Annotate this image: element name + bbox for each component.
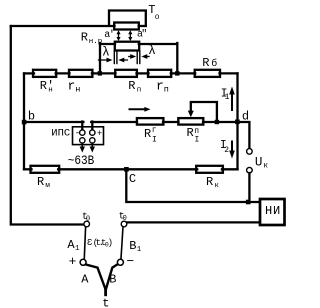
svg-text:к: к — [214, 182, 219, 190]
svg-text:I: I — [195, 135, 200, 144]
thermocouple electrode B — [106, 265, 117, 290]
wire: left assembly rail down to resistor row — [99, 43, 101, 73]
wire: left bridge rail — [23, 73, 25, 169]
resistor Rб — [195, 70, 220, 77]
wire: outer loop left side and bottom — [11, 26, 84, 225]
svg-text:0: 0 — [123, 215, 127, 223]
svg-text:I: I — [152, 135, 157, 144]
svg-text:п: п — [164, 85, 169, 95]
svg-text:r: r — [68, 78, 76, 93]
wire: Rн.р right end to loop right vertical — [139, 25, 146, 27]
contact reference lines below slidewire right end — [136, 51, 138, 64]
thermocouple electrode A — [86, 265, 117, 290]
wire: right assembly rail down to resistor row — [176, 43, 178, 73]
wire: main top conductor from outer loop corner to Rн.р — [11, 25, 115, 27]
svg-text:н: н — [75, 85, 80, 95]
svg-text:+: + — [97, 129, 102, 139]
IPS terminal circles — [80, 130, 95, 143]
current arrow I1 (up) — [231, 93, 233, 110]
svg-text:R: R — [128, 79, 135, 93]
terminal circle thermocouple plus — [80, 259, 123, 265]
svg-text:н.р: н.р — [89, 38, 103, 46]
resistor Rк — [196, 166, 223, 173]
middle row wire: R_I^г to R_I^п — [163, 121, 179, 123]
terminal circle t0 right — [121, 221, 127, 227]
wire: right bridge rail — [236, 73, 238, 169]
svg-text:d: d — [242, 109, 249, 123]
middle row wire: R_I^п to node d — [203, 121, 238, 123]
dimension arrows between contacts — [118, 58, 124, 63]
IPS output arrows down — [82, 143, 92, 148]
resistor row wire segments — [24, 72, 34, 74]
node: junction of Uк branch with c–NI wire — [246, 200, 251, 205]
svg-text:C: C — [129, 172, 136, 186]
wire: compensation lead B1 — [121, 227, 123, 259]
svg-text:r: r — [156, 78, 164, 93]
node b — [22, 120, 27, 125]
node d — [235, 120, 240, 125]
svg-text:ИПС: ИПС — [51, 128, 70, 140]
svg-text:t: t — [102, 296, 109, 308]
svg-text:1: 1 — [75, 245, 80, 253]
slidewire resistor Rp (rheochord) — [115, 42, 139, 51]
svg-text:R: R — [202, 56, 209, 70]
contact reference lines below slidewire left end — [114, 51, 140, 64]
current arrow I2 (down) — [231, 142, 233, 153]
svg-text:а′: а′ — [104, 29, 115, 41]
svg-text:н: н — [48, 86, 53, 94]
svg-text:Ɛ(t.t: Ɛ(t.t — [87, 238, 106, 248]
svg-text:~63В: ~63В — [68, 153, 94, 168]
svg-text:): ) — [108, 238, 113, 248]
resistor R'н — [33, 70, 56, 77]
dimension arrow lambda left — [99, 59, 109, 61]
current direction arrow above R_I^г — [130, 108, 145, 110]
terminal circle Uк upper — [247, 149, 253, 173]
svg-text:B: B — [109, 272, 116, 286]
dimension arrow lambda right — [141, 54, 147, 59]
svg-text:R: R — [144, 127, 151, 141]
resistor rп — [148, 70, 171, 77]
bottom row wire segments — [24, 168, 32, 170]
node: junction of right assembly rail with resistor row — [175, 71, 179, 75]
svg-text:R: R — [81, 30, 88, 44]
terminal circle Uк lower — [247, 167, 253, 173]
node: junction of left assembly rail with resistor row — [98, 71, 102, 75]
resistor R_I^п — [178, 118, 203, 125]
middle row wire: b to IPS minus terminal — [24, 121, 83, 123]
svg-text:б: б — [211, 57, 217, 70]
svg-text:A: A — [81, 272, 89, 286]
svg-text:o: o — [155, 13, 160, 22]
wire: t0 terminal B to NI lower input — [127, 221, 259, 223]
slider contact a'' (double-headed arrow) — [129, 33, 131, 40]
resistor Rм — [31, 166, 60, 173]
svg-text:НИ: НИ — [265, 204, 281, 218]
svg-text:R: R — [206, 175, 213, 189]
wire: node d to Uк branch — [238, 122, 250, 149]
wire: slidewire left end to left assembly rail — [100, 43, 115, 45]
thermostat To enclosure loop — [109, 11, 146, 26]
thermocouple hot junction tick — [104, 290, 107, 295]
svg-text:-: - — [75, 129, 80, 139]
svg-text:R: R — [37, 175, 44, 189]
svg-text:а″: а″ — [137, 28, 147, 40]
wire: slidewire right end to right assembly rail — [139, 43, 178, 45]
svg-text:г: г — [152, 126, 157, 135]
svg-text:R: R — [187, 126, 194, 140]
slider contact a' (double-headed arrow) — [118, 33, 120, 40]
resistor Rп — [115, 70, 137, 77]
resistor rн — [69, 70, 92, 77]
node: wiper junction on middle wire — [215, 120, 219, 124]
svg-text:п: п — [137, 86, 142, 94]
svg-text:+: + — [69, 254, 77, 269]
terminal circle t0 left — [84, 221, 127, 227]
svg-text:0: 0 — [86, 216, 90, 224]
svg-text:U: U — [255, 156, 263, 170]
middle row wire: IPS plus terminal to R_I^г — [91, 121, 137, 123]
terminal circle thermocouple minus — [117, 259, 123, 265]
wiper of R_I^п — [191, 102, 217, 122]
svg-text:λ: λ — [102, 45, 110, 59]
wire: IPS left terminal stub — [81, 122, 83, 131]
wire: node c down and right to NI — [126, 169, 259, 202]
resistor Rн.р — [114, 23, 139, 30]
svg-text:2: 2 — [224, 146, 229, 155]
wire: IPS right terminal stub — [91, 122, 93, 131]
svg-text:1: 1 — [225, 93, 230, 102]
svg-text:м: м — [45, 182, 50, 190]
svg-text:к: к — [263, 161, 268, 170]
svg-text:λ: λ — [148, 44, 156, 58]
IPS supply box — [73, 127, 104, 145]
svg-text:b: b — [28, 110, 35, 124]
node c — [124, 167, 129, 172]
svg-text:1: 1 — [137, 246, 142, 254]
wire: compensation lead A1 — [84, 227, 123, 259]
svg-text:B: B — [129, 239, 136, 253]
null indicator NI box — [260, 199, 285, 225]
resistor R_I^г — [137, 118, 164, 125]
wire: Uк lower terminal down to NI junction — [248, 173, 250, 202]
svg-text:−: − — [126, 254, 134, 269]
